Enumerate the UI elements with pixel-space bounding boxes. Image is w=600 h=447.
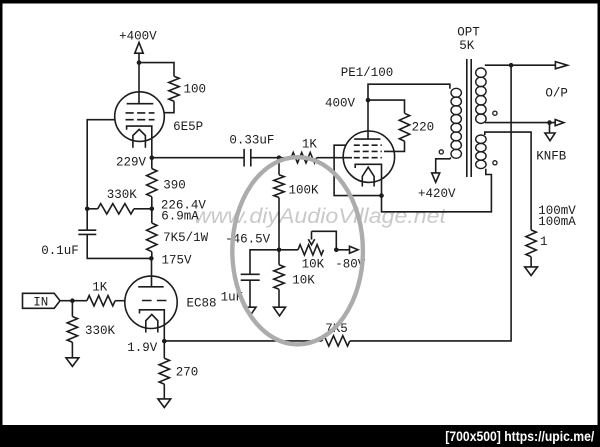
node -46.5V — [225, 232, 281, 252]
svg-text:330K: 330K — [107, 188, 138, 202]
wire node to R 100 top — [139, 63, 174, 77]
phase dot secondary lower — [493, 161, 497, 165]
svg-text:100K: 100K — [289, 183, 320, 197]
wire IN to node — [60, 300, 72, 302]
svg-text:175V: 175V — [162, 254, 193, 268]
svg-text:6.9mA: 6.9mA — [161, 209, 199, 223]
tube 6E5P cathode — [127, 126, 152, 158]
tube PE1/100 cathode — [355, 164, 381, 195]
wire R 7K5 to node 175V — [151, 252, 153, 259]
svg-text:0.1uF: 0.1uF — [41, 244, 79, 258]
wire secondary lower to R 1 — [485, 132, 531, 230]
power +400V — [119, 30, 157, 54]
resistor 10K bias — [274, 265, 315, 290]
svg-text:[700x500] https://upic.me/: [700x500] https://upic.me/ — [445, 428, 594, 444]
resistor 100 — [169, 76, 206, 101]
wire C 0.1uF to node 175V — [87, 234, 151, 258]
tube 6E5P envelope — [115, 92, 165, 142]
ground EC88 cathode — [158, 399, 171, 408]
terminal O/P minus — [555, 120, 564, 126]
wire node to R 1K input — [72, 300, 87, 302]
svg-text:+400V: +400V — [119, 30, 157, 44]
highlight ellipse annotation — [232, 157, 363, 344]
wire node to R 1K grid stopper — [279, 157, 291, 159]
phase dot secondary upper — [493, 111, 497, 115]
wire R 330K lower to ground — [71, 342, 73, 358]
wire 229V to R 390 — [151, 158, 153, 169]
wire 229V to coupling cap — [152, 157, 244, 159]
resistor 1 — [526, 230, 548, 257]
wire grid node to R 330K — [87, 208, 98, 210]
wire C 1uF to ground — [249, 280, 251, 307]
svg-text:7K5/1W: 7K5/1W — [163, 231, 209, 245]
wire KNFB node down — [549, 123, 551, 133]
tube EC88 cathode — [140, 310, 165, 341]
label OPT 5K — [457, 26, 480, 53]
wire EC88 anode lead — [151, 258, 153, 286]
svg-text:0.33uF: 0.33uF — [229, 134, 274, 148]
capacitor 1uF — [221, 274, 260, 304]
svg-text:KNFB: KNFB — [536, 150, 567, 164]
svg-text:229V: 229V — [116, 155, 147, 169]
ground R 10K — [274, 307, 286, 316]
wire R 100K to node -46.5V — [278, 198, 280, 250]
svg-text:1K: 1K — [92, 281, 108, 295]
wire R 100 to 6E5P screen grid — [164, 101, 174, 113]
wire node -46.5V to pot — [279, 249, 298, 251]
tube 6E5P screen grid g2 — [126, 112, 155, 114]
svg-text:270: 270 — [176, 365, 199, 379]
wire pot to -80V arrow — [336, 249, 349, 251]
wire 400V node to R 220 — [368, 100, 405, 113]
svg-text:www.diyAudioVillage.net: www.diyAudioVillage.net — [194, 204, 447, 228]
wire R 1K to PE1 grid — [317, 157, 352, 159]
wire PE1 cathode to feedback winding — [382, 169, 492, 212]
wire node to R 100K — [278, 158, 280, 175]
svg-text:EC88: EC88 — [187, 297, 217, 311]
node O/P top — [509, 63, 514, 68]
tube PE1/100 grid g3 — [354, 144, 382, 146]
tube EC88 heater — [146, 314, 158, 332]
terminal -80V — [335, 246, 366, 271]
terminal O/P plus — [545, 62, 568, 101]
transformer OPT core — [467, 59, 471, 177]
node 229V — [116, 155, 154, 169]
svg-text:10K: 10K — [292, 274, 315, 288]
svg-text:5K: 5K — [459, 39, 475, 53]
svg-text:10K: 10K — [302, 258, 325, 272]
wire R 220 to PE1 screen — [384, 141, 405, 151]
svg-text:330K: 330K — [85, 324, 116, 338]
phase dot primary — [439, 150, 443, 154]
svg-text:1.9V: 1.9V — [127, 341, 158, 355]
svg-text:100mA: 100mA — [538, 215, 576, 229]
svg-text:PE1/100: PE1/100 — [341, 66, 394, 80]
tube 6E5P anode plate — [127, 103, 154, 105]
tube PE1/100 grid g2 — [354, 150, 382, 152]
svg-text:OPT: OPT — [457, 26, 480, 40]
wire R 1K to EC88 grid — [115, 300, 125, 302]
wire R 390 to node 226.4V — [151, 197, 153, 209]
resistor 220 — [399, 113, 434, 141]
wire g3 to cathode box — [334, 145, 381, 195]
wire feedback O/P to R 7K5 — [350, 65, 511, 341]
wire secondary top to O/P — [485, 64, 556, 66]
ground C 1uF — [244, 307, 256, 316]
wire input node to R 330K lower — [71, 301, 73, 317]
wire cap to node — [251, 157, 279, 159]
wire node -46.5V to C 1uF — [250, 250, 279, 274]
wire R 270 to ground — [163, 384, 165, 399]
label 6E5P — [173, 120, 203, 134]
node PE1 cathode — [379, 193, 384, 198]
wire node 1.9V to R 270 — [163, 341, 165, 358]
wire 6E5P grid to left rail — [87, 120, 115, 209]
node KNFB — [547, 120, 552, 125]
tube EC88 anode plate — [138, 286, 164, 288]
wire secondary to O/P minus — [485, 122, 555, 124]
tube PE1/100 envelope — [343, 131, 394, 182]
svg-text:400V: 400V — [325, 97, 356, 111]
resistor 1K grid stopper — [291, 138, 317, 163]
power +420V — [418, 173, 456, 201]
tube EC88 grid g1 — [142, 300, 167, 302]
wire 6E5P anode lead — [138, 63, 140, 104]
resistor 100K — [274, 175, 319, 198]
wire R 10K to ground — [278, 289, 280, 307]
node pot output — [334, 248, 339, 253]
terminal KNFB — [536, 133, 567, 164]
label 100mV 100mA — [538, 204, 576, 229]
resistor 7K5/1W — [147, 223, 209, 252]
tube 6E5P control grid g1 — [126, 119, 155, 121]
label PE1/100 — [341, 66, 394, 80]
transformer OPT secondary winding upper — [476, 68, 486, 123]
node 400V — [325, 97, 370, 111]
label EC88 — [187, 297, 217, 311]
transformer OPT primary winding — [451, 88, 461, 158]
node 175V — [149, 254, 192, 268]
pot wiper — [308, 231, 314, 245]
resistor 330K lower — [67, 317, 115, 343]
tube PE1/100 heater — [362, 167, 374, 186]
ground input — [66, 358, 79, 367]
svg-text:6E5P: 6E5P — [173, 120, 203, 134]
tube PE1/100 grid g1 — [354, 157, 382, 159]
node 226.4V — [150, 199, 207, 224]
wire R 1 to ground — [530, 257, 532, 267]
wire R 7K5 to node 1.9V — [164, 340, 321, 342]
node input — [70, 298, 75, 303]
svg-text:1: 1 — [540, 235, 548, 249]
resistor 330K upper — [98, 188, 138, 214]
resistor 1K input — [87, 281, 115, 306]
svg-text:IN: IN — [33, 296, 48, 310]
wire wiper loop — [312, 231, 337, 250]
wire +400V arrow to node — [138, 53, 140, 62]
svg-text:+420V: +420V — [418, 187, 456, 201]
connector IN — [23, 293, 61, 309]
node 1.9V — [127, 339, 166, 355]
capacitor 0.33uF — [229, 134, 274, 167]
tube PE1/100 anode plate — [354, 138, 380, 140]
resistor 390 — [147, 169, 186, 197]
wire R 330K to node 226.4V — [134, 208, 152, 210]
svg-text:O/P: O/P — [545, 86, 568, 100]
capacitor 0.1uF — [41, 230, 96, 258]
svg-text:390: 390 — [163, 179, 186, 193]
tube 6E5P heater — [133, 129, 146, 147]
resistor 270 — [159, 358, 198, 384]
svg-text:1K: 1K — [302, 138, 318, 152]
wire 400V node to OPT primary — [368, 84, 450, 100]
wire grid node to C 0.1uF — [86, 209, 88, 230]
ground R 1 — [525, 267, 538, 276]
wire node 226.4V to R 7K5 — [151, 209, 153, 223]
wire OPT primary bottom to +420V — [436, 158, 451, 173]
wire PE1 anode lead — [367, 100, 369, 139]
wire node -46.5V to R 10K — [278, 250, 280, 265]
resistor 7K5 feedback — [322, 322, 350, 346]
svg-text:100: 100 — [184, 83, 207, 97]
transformer OPT secondary winding lower — [476, 135, 486, 169]
potentiometer 10K — [298, 245, 325, 272]
node coupling — [277, 155, 282, 160]
svg-text:220: 220 — [412, 120, 435, 134]
node 6E5P grid bias — [85, 207, 90, 212]
node +400V junction — [137, 60, 142, 65]
tube EC88 envelope — [125, 276, 177, 328]
